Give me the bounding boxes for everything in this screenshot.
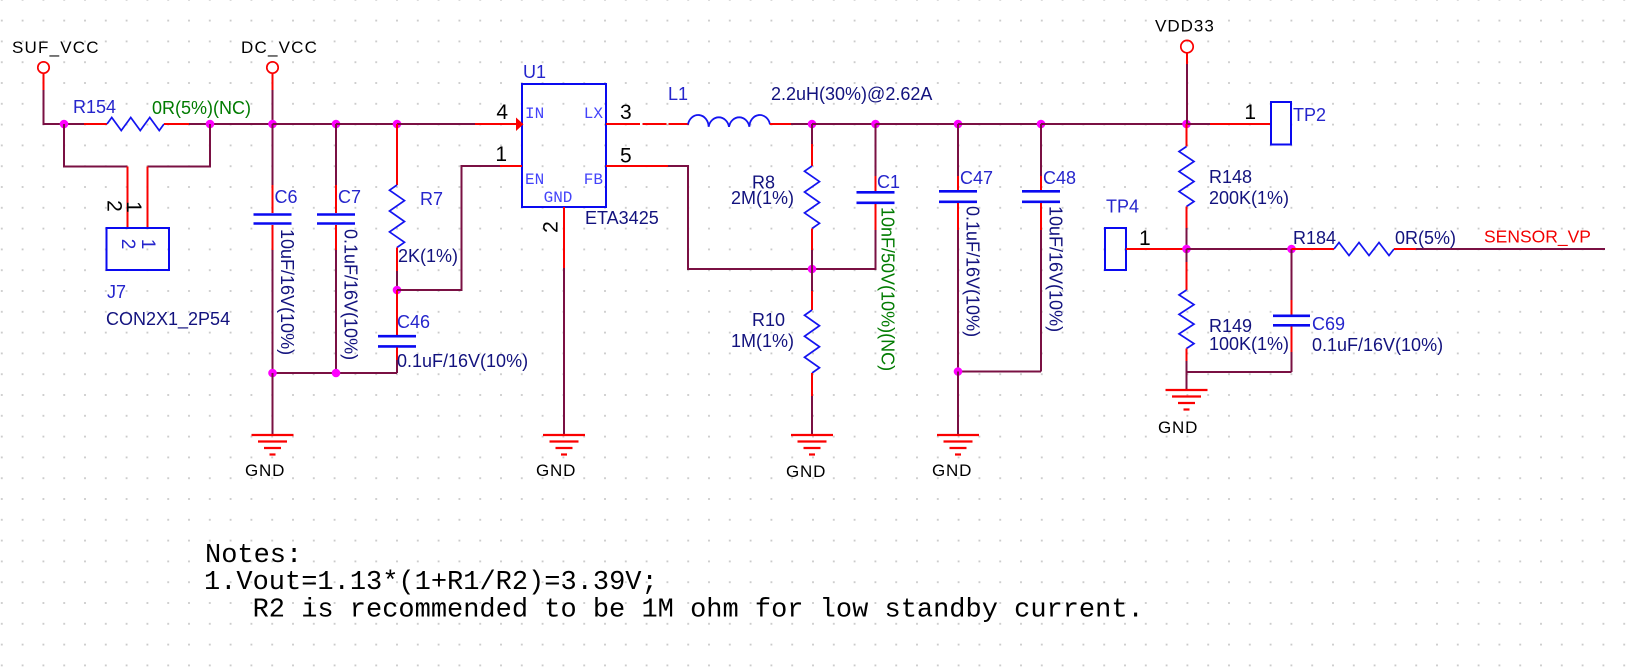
wire GND pin of U1 [563,268,565,435]
node J7 pin2 branch [60,120,69,129]
svg-text:CON2X1_2P54: CON2X1_2P54 [106,309,230,330]
svg-text:1: 1 [495,143,507,166]
node TP4/R148/R149 [1182,245,1191,254]
resistor R149 [1179,249,1194,372]
node C48 top [1037,120,1046,129]
svg-text:IN: IN [525,105,544,123]
wire rail R7 to U1 [397,123,475,125]
wire J7 left elbow [64,124,128,167]
svg-text:1: 1 [137,239,158,250]
svg-text:GND: GND [245,461,285,480]
svg-text:DC_VCC: DC_VCC [241,38,318,57]
wire bottom rail C47-C48 [958,371,1041,373]
svg-text:10nF/50V(10%)(NC): 10nF/50V(10%)(NC) [878,207,898,371]
wire rail DC to C7 [273,123,337,125]
svg-text:2: 2 [540,221,563,233]
port SUF_VCC [12,38,100,90]
svg-text:2.2uH(30%)@2.62A: 2.2uH(30%)@2.62A [771,84,932,104]
input arrow at IN pin [516,118,524,132]
capacitor C1 [857,124,895,230]
wire rail to TP2 [1187,123,1211,125]
node FB/R8/R10 [808,265,817,274]
svg-text:10uF/16V(10%): 10uF/16V(10%) [1046,206,1066,332]
svg-text:R148: R148 [1209,167,1252,187]
svg-text:C48: C48 [1043,168,1076,188]
capacitor C46 [378,290,416,373]
svg-text:R7: R7 [420,189,443,209]
svg-text:TP4: TP4 [1106,197,1139,217]
wire bottom rail C6-C7-C46 [273,372,398,374]
svg-text:1: 1 [1139,227,1151,250]
capacitor C6 [254,124,292,373]
wire rail R8 to C1 [812,123,876,125]
wire rail R154 to DC_VCC [189,123,273,125]
wire EN red stub [500,165,522,167]
wire L1 right red [770,123,791,125]
capacitor C7 [317,124,355,373]
svg-text:3: 3 [620,101,632,124]
ground under R10 [786,435,833,481]
wire rail C47 to C48 [958,123,1041,125]
wire SUF_VCC stem [43,90,45,124]
wire TP4 pin red [1126,248,1187,250]
svg-text:1: 1 [122,201,145,213]
ground under C6 [245,435,294,480]
svg-text:VDD33: VDD33 [1155,17,1215,36]
node C1 top [871,120,880,129]
port VDD33 [1155,17,1215,65]
capacitor C69 [1273,249,1310,372]
node C6 bottom [268,369,277,378]
port DC_VCC [241,38,318,90]
svg-text:10uF/16V(10%): 10uF/16V(10%) [277,229,297,355]
wire main rail left [43,123,85,125]
svg-text:0R(5%): 0R(5%) [1395,228,1456,248]
wire net SENSOR_VP [1416,248,1605,250]
resistor R8 [805,124,820,269]
node R184/C69 [1287,245,1296,254]
svg-text:2M(1%): 2M(1%) [731,188,794,208]
svg-text:R2 is recommended to be 1M ohm: R2 is recommended to be 1M ohm for low s… [253,596,1144,626]
resistor R10 [805,269,820,435]
svg-text:4: 4 [496,101,508,124]
svg-text:C46: C46 [397,312,430,332]
svg-text:1M(1%): 1M(1%) [731,331,794,351]
svg-text:1.Vout=1.13*(1+R1/R2)=3.39V;: 1.Vout=1.13*(1+R1/R2)=3.39V; [204,568,658,598]
wire LX red stub [606,123,640,125]
svg-text:Notes:: Notes: [205,541,302,571]
wire stub to ground C47 [957,372,959,436]
svg-text:R184: R184 [1293,228,1336,248]
svg-text:2K(1%): 2K(1%) [398,246,458,266]
svg-text:2: 2 [117,239,138,250]
svg-text:SUF_VCC: SUF_VCC [12,38,100,57]
wire stub to ground [272,373,274,435]
wire LX to L1 red [669,123,690,125]
node R7 [393,120,402,129]
ground right [1158,390,1208,437]
svg-text:ETA3425: ETA3425 [585,208,659,228]
wire node to R184 [1187,248,1292,250]
svg-text:0.1uF/16V(10%): 0.1uF/16V(10%) [1312,335,1443,355]
svg-text:TP2: TP2 [1293,105,1326,125]
svg-text:J7: J7 [107,282,126,302]
svg-text:0R(5%)(NC): 0R(5%)(NC) [152,98,251,118]
svg-text:EN: EN [525,171,544,189]
wire stub to ground right [1186,372,1188,390]
resistor R7 [390,124,405,290]
node C7 [332,120,341,129]
inductor L1 [688,115,770,127]
node C47 bottom [954,367,963,376]
wire DC_VCC stem [272,90,274,124]
svg-text:C7: C7 [338,187,361,207]
svg-text:0.1uF/16V(10%): 0.1uF/16V(10%) [397,351,528,371]
node VDD33 [1182,120,1191,129]
node J7 pin1 branch [206,120,215,129]
connector J7 [107,167,170,271]
svg-text:SENSOR_VP: SENSOR_VP [1484,227,1591,248]
wire J7 right elbow [148,124,211,167]
svg-text:0.1uF/16V(10%): 0.1uF/16V(10%) [341,229,361,360]
notes text [204,541,1144,626]
svg-text:FB: FB [584,171,603,189]
testpoint TP2 [1271,102,1291,145]
svg-text:L1: L1 [668,84,688,104]
svg-text:R149: R149 [1209,316,1252,336]
svg-text:100K(1%): 100K(1%) [1209,334,1289,354]
svg-text:C69: C69 [1312,314,1345,334]
svg-text:1: 1 [1244,101,1256,124]
svg-text:C47: C47 [960,168,993,188]
svg-text:0.1uF/16V(10%): 0.1uF/16V(10%) [963,206,983,337]
wire rail L1 to R8 [791,123,812,125]
svg-text:5: 5 [620,145,632,168]
node C7 bottom [332,369,341,378]
capacitor C47 [939,124,977,372]
wire EN net to R7 node [397,166,500,290]
wire rail C7 to R7 [336,123,397,125]
wire TP2 pin red [1210,123,1271,125]
svg-text:GND: GND [786,462,826,481]
svg-text:U1: U1 [523,62,546,82]
ground under C47 [932,435,979,480]
node R7/C46/EN [393,286,402,295]
svg-text:GND: GND [1158,418,1198,437]
wire red into IN pin [475,123,517,125]
svg-text:GND: GND [932,461,972,480]
testpoint TP4 [1105,228,1126,270]
capacitor C48 [1022,124,1060,372]
wire rail C48 to VDD33 [1041,123,1187,125]
ground under U1 [536,435,585,480]
svg-text:GND: GND [536,461,576,480]
svg-text:C6: C6 [275,187,298,207]
wire VDD33 stem [1186,64,1188,124]
wire GND pin of U1 red [563,207,565,268]
svg-text:C1: C1 [877,172,900,192]
svg-text:R154: R154 [73,97,116,117]
node R8 top [808,120,817,129]
resistor R148 [1179,124,1194,249]
svg-text:R10: R10 [752,310,785,330]
svg-text:200K(1%): 200K(1%) [1209,188,1289,208]
svg-text:LX: LX [584,105,604,123]
resistor R184 [1292,243,1417,256]
op-amp U1 body [522,84,606,207]
wire rail C1 to C47 [876,123,959,125]
wire bottom rail right [1187,371,1292,373]
svg-text:GND: GND [544,189,573,207]
resistor R154 [84,118,189,131]
node C47 top [954,120,963,129]
node DC_VCC / C6 [268,120,277,129]
wire FB net [668,166,876,269]
wire FB red stub [606,165,668,167]
